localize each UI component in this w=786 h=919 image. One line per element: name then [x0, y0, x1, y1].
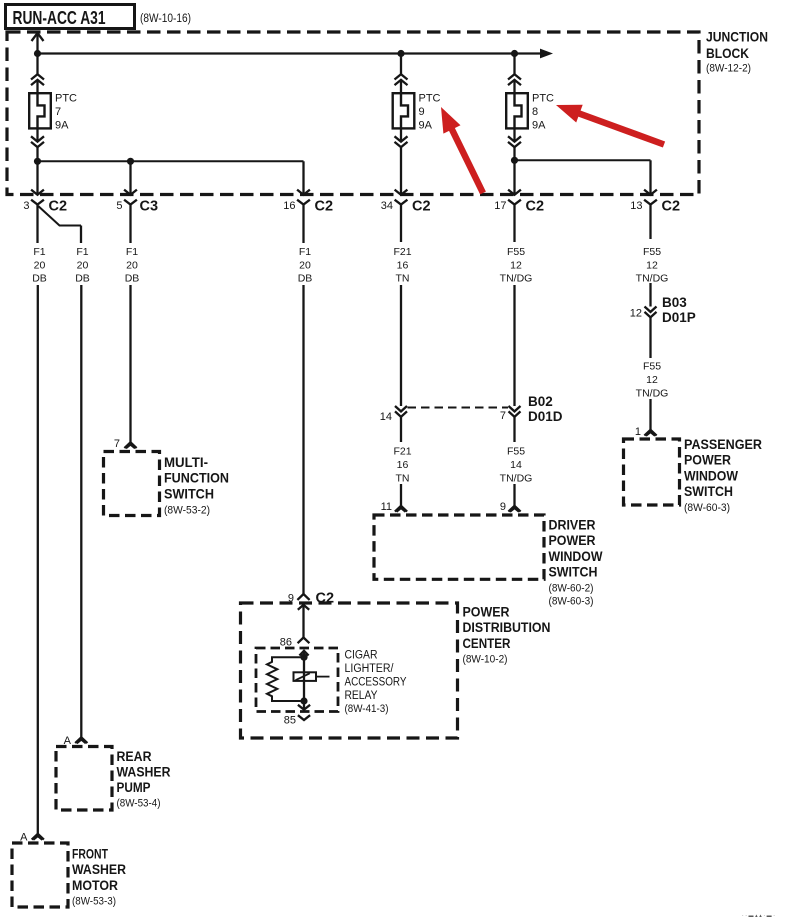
- svg-text:F1: F1: [76, 246, 88, 258]
- connector pin 85 fork below relay box: [298, 715, 310, 720]
- wire pin13 to connector 12: [649, 283, 651, 307]
- junction node relay top: [300, 654, 307, 661]
- svg-text:F21: F21: [393, 246, 411, 258]
- svg-text:9A: 9A: [55, 120, 69, 132]
- power distribution center box (dashed): [241, 603, 458, 738]
- bus arrowhead right: [540, 49, 553, 59]
- front washer motor label: [72, 847, 126, 908]
- svg-text:PTC: PTC: [419, 93, 441, 105]
- svg-text:(8W-53-2): (8W-53-2): [164, 504, 210, 516]
- svg-text:34: 34: [381, 200, 393, 212]
- svg-text:85: 85: [284, 715, 296, 727]
- svg-text:DB: DB: [298, 273, 313, 285]
- relay coil box with actuator: [294, 672, 330, 681]
- pin number 34: [381, 200, 393, 212]
- connector pin 7 at multi-function switch: [124, 442, 136, 448]
- driver power window switch box (dashed): [374, 515, 544, 579]
- connector name C2: [662, 199, 681, 215]
- svg-text:BLOCK: BLOCK: [706, 45, 749, 61]
- svg-text:DISTRIBUTION: DISTRIBUTION: [463, 620, 551, 635]
- wire below PTC 7: [36, 128, 38, 141]
- reference (8W-10-16): [140, 13, 191, 25]
- pin number 86: [280, 637, 292, 649]
- svg-text:9: 9: [500, 501, 506, 513]
- multi-function switch label: [164, 455, 229, 516]
- wire B03 to label: [649, 317, 651, 358]
- junction node col2 manifold: [127, 158, 134, 165]
- wire to relay pin 85: [303, 701, 305, 710]
- connector name C2 (PDC): [316, 591, 335, 607]
- connector pin 9 C2 at PDC fork: [297, 594, 309, 600]
- svg-text:C2: C2: [662, 199, 681, 215]
- wire to rear washer pump: [80, 285, 82, 738]
- connector name C2: [526, 199, 545, 215]
- connector pin 13 C2 arrowhead: [644, 190, 657, 195]
- wire label F1 20 DB (rear washer): [75, 246, 90, 285]
- connector pin 9 C2 arrowhead below PDC edge: [298, 605, 309, 610]
- svg-text:B02: B02: [528, 394, 553, 409]
- wire below PTC 9: [400, 128, 402, 141]
- in-line connector B03 pin 12 chevrons: [645, 307, 657, 318]
- svg-text:ACCESSORY: ACCESSORY: [345, 675, 407, 689]
- svg-text:F1: F1: [126, 246, 138, 258]
- junction block boundary (dashed): [7, 32, 699, 195]
- svg-text:14: 14: [510, 459, 522, 471]
- wire label F1 20 DB (cigar relay): [298, 246, 313, 285]
- in-line connector above PTC 7 (chevrons): [31, 74, 44, 85]
- svg-text:F55: F55: [507, 446, 525, 458]
- wire label F55 14 TN/DG (below 7): [500, 446, 533, 485]
- svg-text:C2: C2: [526, 199, 545, 215]
- svg-text:11: 11: [381, 501, 392, 513]
- fuse PTC 7 body: [29, 93, 51, 128]
- svg-text:12: 12: [646, 374, 658, 386]
- svg-text:D01P: D01P: [662, 310, 696, 325]
- svg-text:SWITCH: SWITCH: [549, 565, 598, 580]
- connector pin 17 C2 fork: [508, 200, 521, 205]
- wire to driver switch pin 9: [513, 484, 515, 506]
- cigar lighter relay label: [345, 648, 407, 716]
- svg-text:WINDOW: WINDOW: [684, 468, 738, 483]
- svg-text:F21: F21: [393, 446, 411, 458]
- fuse PTC 9 body: [393, 93, 415, 128]
- branch wire to pin16 C2: [38, 160, 304, 162]
- driver power window switch label: [549, 518, 603, 608]
- svg-text:FUNCTION: FUNCTION: [164, 471, 229, 486]
- svg-text:TN/DG: TN/DG: [500, 473, 533, 485]
- svg-text:12: 12: [646, 260, 658, 272]
- svg-text:TN/DG: TN/DG: [636, 388, 669, 400]
- pin number 14 (B02): [380, 411, 392, 423]
- pin number 11: [381, 501, 392, 513]
- junction node col5 branch: [511, 157, 518, 164]
- svg-text:RELAY: RELAY: [345, 688, 378, 702]
- svg-text:PTC: PTC: [55, 93, 77, 105]
- wire pin17 down: [513, 205, 515, 242]
- wire connector to PTC 8: [513, 80, 515, 94]
- connector pin 1 at passenger window switch: [644, 430, 656, 436]
- svg-text:8: 8: [532, 106, 538, 118]
- fuse PTC 7 value label: [55, 93, 77, 132]
- connector name B02 D01D: [528, 394, 563, 424]
- branch wire to pin13 C2: [515, 159, 651, 161]
- red annotation arrow to PTC 9: [441, 107, 483, 193]
- pin number 3: [23, 200, 29, 212]
- wire 14 to label: [400, 417, 402, 442]
- pin number 85: [284, 715, 296, 727]
- svg-text:1: 1: [635, 426, 641, 438]
- connector pin 3 C2 fork: [31, 200, 44, 205]
- relay coil resistor (parallel): [267, 657, 304, 701]
- svg-text:RUN-ACC A31: RUN-ACC A31: [13, 7, 106, 28]
- connector pin A at front washer motor: [32, 834, 44, 840]
- fuse PTC 9 value label: [419, 93, 441, 132]
- multi-function switch box (dashed): [104, 452, 160, 516]
- rear washer pump box (dashed): [56, 747, 112, 811]
- connector pin 13 C2 fork: [644, 200, 657, 205]
- svg-text:DB: DB: [125, 273, 140, 285]
- wire to multi-function switch: [129, 285, 131, 442]
- wire to cigar relay pin 9: [302, 285, 304, 594]
- svg-text:POWER: POWER: [549, 533, 596, 548]
- passenger power window switch label: [684, 437, 762, 514]
- connector name C2: [412, 199, 431, 215]
- wire PTC7 to node row: [36, 147, 38, 161]
- wire col3 corner to pin16: [302, 161, 304, 194]
- svg-text:7: 7: [114, 438, 120, 450]
- svg-text:20: 20: [126, 260, 138, 272]
- svg-text:PUMP: PUMP: [117, 780, 151, 795]
- pin number 13: [630, 200, 642, 212]
- connector name C2: [315, 199, 334, 215]
- svg-text:FRONT: FRONT: [72, 847, 109, 862]
- connector pin 86 fork: [298, 638, 310, 644]
- svg-text:(8W-60-3): (8W-60-3): [549, 596, 594, 608]
- wire PTC9 to pin34: [400, 147, 402, 194]
- wire connector to PTC 7: [36, 80, 38, 94]
- svg-text:(8W-41-3): (8W-41-3): [345, 703, 389, 715]
- svg-text:7: 7: [55, 106, 61, 118]
- wire pin16 down: [302, 205, 304, 243]
- junction node at col4/bus: [397, 50, 404, 57]
- net label RUN-ACC A31 title box: [6, 5, 135, 29]
- connector pin 85 arrowhead: [298, 705, 310, 710]
- junction block label: [706, 29, 768, 75]
- pin number A (rear): [64, 735, 72, 747]
- svg-text:(8W-12-2): (8W-12-2): [706, 63, 751, 75]
- wire pin17 to connector 7: [513, 285, 515, 406]
- connector pin 16 C2 arrowhead: [297, 190, 310, 195]
- pin number 9 (PDC): [288, 593, 294, 605]
- pin number 1: [635, 426, 641, 438]
- connector pin 16 C2 fork: [297, 200, 310, 205]
- junction node col1 manifold: [34, 158, 41, 165]
- svg-text:C2: C2: [49, 199, 68, 215]
- wire PDC pin9 to relay pin 86: [302, 605, 304, 638]
- fuse PTC 8 value label: [532, 93, 554, 132]
- svg-text:PASSENGER: PASSENGER: [684, 437, 762, 452]
- svg-text:20: 20: [299, 260, 311, 272]
- svg-text:17: 17: [494, 200, 506, 212]
- svg-text:13: 13: [630, 200, 642, 212]
- svg-text:POWER: POWER: [463, 605, 510, 620]
- in-line connector above PTC 9 (chevrons): [395, 74, 408, 85]
- connector name C3: [140, 199, 159, 215]
- wire to driver switch pin 11: [400, 484, 402, 506]
- svg-text:F55: F55: [507, 246, 525, 258]
- svg-text:9A: 9A: [532, 120, 546, 132]
- svg-text:F55: F55: [643, 246, 661, 258]
- svg-text:POWER: POWER: [684, 453, 731, 468]
- svg-text:MOTOR: MOTOR: [72, 878, 118, 893]
- wire col2 node to pin5: [129, 161, 131, 194]
- connector pin 17 C2 arrowhead: [508, 190, 521, 195]
- wire label F1 20 DB (front washer): [32, 246, 47, 285]
- connector pin 34 C2 fork: [395, 200, 408, 205]
- svg-text:9A: 9A: [419, 120, 433, 132]
- wire bus to connector above PTC 7: [36, 54, 38, 75]
- svg-text:WINDOW: WINDOW: [549, 549, 603, 564]
- wire label F55 12 TN/DG (below B03): [636, 361, 669, 400]
- in-line connector above PTC 8 (chevrons): [508, 74, 521, 85]
- cigar lighter relay box (dashed): [256, 648, 338, 712]
- power distribution center label: [463, 605, 551, 666]
- svg-text:SWITCH: SWITCH: [684, 484, 733, 499]
- wire to front washer motor: [37, 285, 39, 834]
- svg-text:TN: TN: [396, 473, 410, 485]
- svg-text:F1: F1: [33, 246, 45, 258]
- svg-text:DB: DB: [32, 273, 47, 285]
- pin number 5: [116, 200, 122, 212]
- pin number 12 (B03): [630, 308, 642, 320]
- svg-text:JUNCTION: JUNCTION: [706, 29, 768, 45]
- svg-text:16: 16: [283, 200, 295, 212]
- wire pin5 down: [129, 205, 131, 243]
- junction node at col1/bus: [34, 50, 41, 57]
- svg-text:(8W-53-3): (8W-53-3): [72, 895, 116, 907]
- wire label F1 20 DB (multi-function): [125, 246, 140, 285]
- svg-text:LIGHTER/: LIGHTER/: [345, 661, 395, 675]
- svg-text:CENTER: CENTER: [463, 636, 511, 651]
- svg-text:D01D: D01D: [528, 409, 563, 424]
- wire pin34 down: [400, 205, 402, 242]
- svg-text:F1: F1: [299, 246, 311, 258]
- svg-text:TN: TN: [396, 273, 410, 285]
- in-line connector B02 dashed link: [408, 407, 509, 409]
- svg-text:C2: C2: [412, 199, 431, 215]
- in-line connector below PTC 8 (chevrons): [508, 136, 521, 147]
- svg-text:C2: C2: [315, 199, 334, 215]
- svg-text:(8W-60-2): (8W-60-2): [549, 583, 594, 595]
- svg-text:DB: DB: [75, 273, 90, 285]
- connector name C2: [49, 199, 68, 215]
- wire 86 to coil node: [303, 651, 305, 657]
- svg-text:9: 9: [419, 106, 425, 118]
- connector pin 5 C3 arrowhead: [124, 190, 137, 195]
- svg-text:16: 16: [397, 459, 409, 471]
- svg-text:TN/DG: TN/DG: [636, 273, 669, 285]
- wire pin3 down (to front washer motor): [36, 205, 38, 243]
- svg-text:16: 16: [397, 260, 409, 272]
- pin number 7 (B02): [500, 410, 506, 422]
- svg-text:5: 5: [116, 200, 122, 212]
- wire col6 corner to pin13: [649, 160, 651, 194]
- in-line connector below PTC 7 (chevrons): [31, 136, 44, 147]
- connector pin 5 C3 fork: [124, 200, 137, 205]
- passenger power window switch box (dashed): [624, 439, 680, 505]
- svg-text:(8W-10-2): (8W-10-2): [463, 654, 508, 666]
- connector pin 9 at driver window switch: [508, 506, 520, 512]
- in-line connector below PTC 9 (chevrons): [395, 136, 408, 147]
- branch wire pin3 diagonal: [38, 206, 81, 226]
- svg-text:DRIVER: DRIVER: [549, 518, 596, 533]
- svg-text:3: 3: [23, 200, 29, 212]
- connector pin 34 C2 arrowhead: [395, 190, 408, 195]
- svg-text:B03: B03: [662, 295, 687, 310]
- svg-text:7: 7: [500, 410, 506, 422]
- arrowhead up at junction block top: [32, 33, 44, 41]
- svg-text:MULTI-: MULTI-: [164, 455, 208, 470]
- junction node relay bottom: [300, 697, 307, 704]
- fuse PTC 8 body: [506, 93, 528, 128]
- connector name B03 D01P: [662, 295, 696, 325]
- wire label F21 16 TN: [393, 246, 411, 285]
- connector pin A at rear washer pump: [75, 737, 87, 743]
- svg-text:WASHER: WASHER: [72, 862, 126, 877]
- pin number 9 (driver switch): [500, 501, 506, 513]
- svg-text:C3: C3: [140, 199, 159, 215]
- svg-text:WASHER: WASHER: [117, 765, 171, 780]
- in-line connector B02 pin 14 chevrons: [395, 406, 407, 417]
- wire below PTC 8: [513, 128, 515, 141]
- pin number A (front): [20, 832, 28, 844]
- branch wire down to rear washer pump: [80, 226, 82, 244]
- svg-text:··▬▴▴·▬·: ··▬▴▴·▬·: [742, 913, 776, 919]
- pin number 17: [494, 200, 506, 212]
- wire bus to connector above PTC 8: [513, 54, 515, 75]
- svg-text:20: 20: [34, 260, 46, 272]
- svg-text:SWITCH: SWITCH: [164, 486, 214, 501]
- svg-text:(8W-60-3): (8W-60-3): [684, 502, 730, 514]
- wire through relay coil: [303, 657, 305, 701]
- connector pin 86 arrowhead inside relay box: [299, 651, 308, 656]
- wire label F21 16 TN (below 14): [393, 446, 411, 485]
- rear washer pump label: [117, 749, 171, 810]
- connector pin 3 C2 arrowhead: [31, 190, 44, 195]
- wire col1 node to pin3: [36, 161, 38, 194]
- svg-text:REAR: REAR: [117, 749, 152, 764]
- svg-text:PTC: PTC: [532, 93, 554, 105]
- wire to passenger window switch: [649, 399, 651, 430]
- wire from RUN-ACC A31 down into junction block: [36, 34, 38, 54]
- pin number 16: [283, 200, 295, 212]
- wire bus to connector above PTC 9: [400, 54, 402, 75]
- wire label F55 12 TN/DG (passenger): [636, 246, 669, 285]
- bus wire across junction block: [38, 52, 543, 54]
- junction node at col5/bus: [511, 50, 518, 57]
- pin number 7 (multi-function): [114, 438, 120, 450]
- net label RUN-ACC A31 text: [13, 7, 106, 28]
- svg-text:F55: F55: [643, 361, 661, 373]
- svg-text:12: 12: [510, 260, 522, 272]
- red annotation arrow to PTC 8: [556, 105, 664, 145]
- svg-text:CIGAR: CIGAR: [345, 648, 378, 662]
- wire pin34 to connector 14: [400, 285, 402, 406]
- svg-text:TN/DG: TN/DG: [500, 273, 533, 285]
- wire label F55 12 TN/DG (driver): [500, 246, 533, 285]
- wire 7 to label: [513, 417, 515, 442]
- connector pin 11 at driver window switch: [395, 506, 407, 512]
- svg-text:(8W-53-4): (8W-53-4): [117, 798, 161, 810]
- svg-text:20: 20: [77, 260, 89, 272]
- wire connector to PTC 9: [400, 80, 402, 94]
- in-line connector B02 pin 7 chevrons: [509, 406, 521, 417]
- svg-text:12: 12: [630, 308, 642, 320]
- front washer motor box (dashed): [12, 843, 68, 907]
- wire pin13 down: [649, 205, 651, 239]
- svg-text:14: 14: [380, 411, 392, 423]
- svg-text:(8W-10-16): (8W-10-16): [140, 13, 191, 25]
- wire PTC8 to pin17: [513, 147, 515, 194]
- faint scan marks bottom right: [742, 913, 776, 919]
